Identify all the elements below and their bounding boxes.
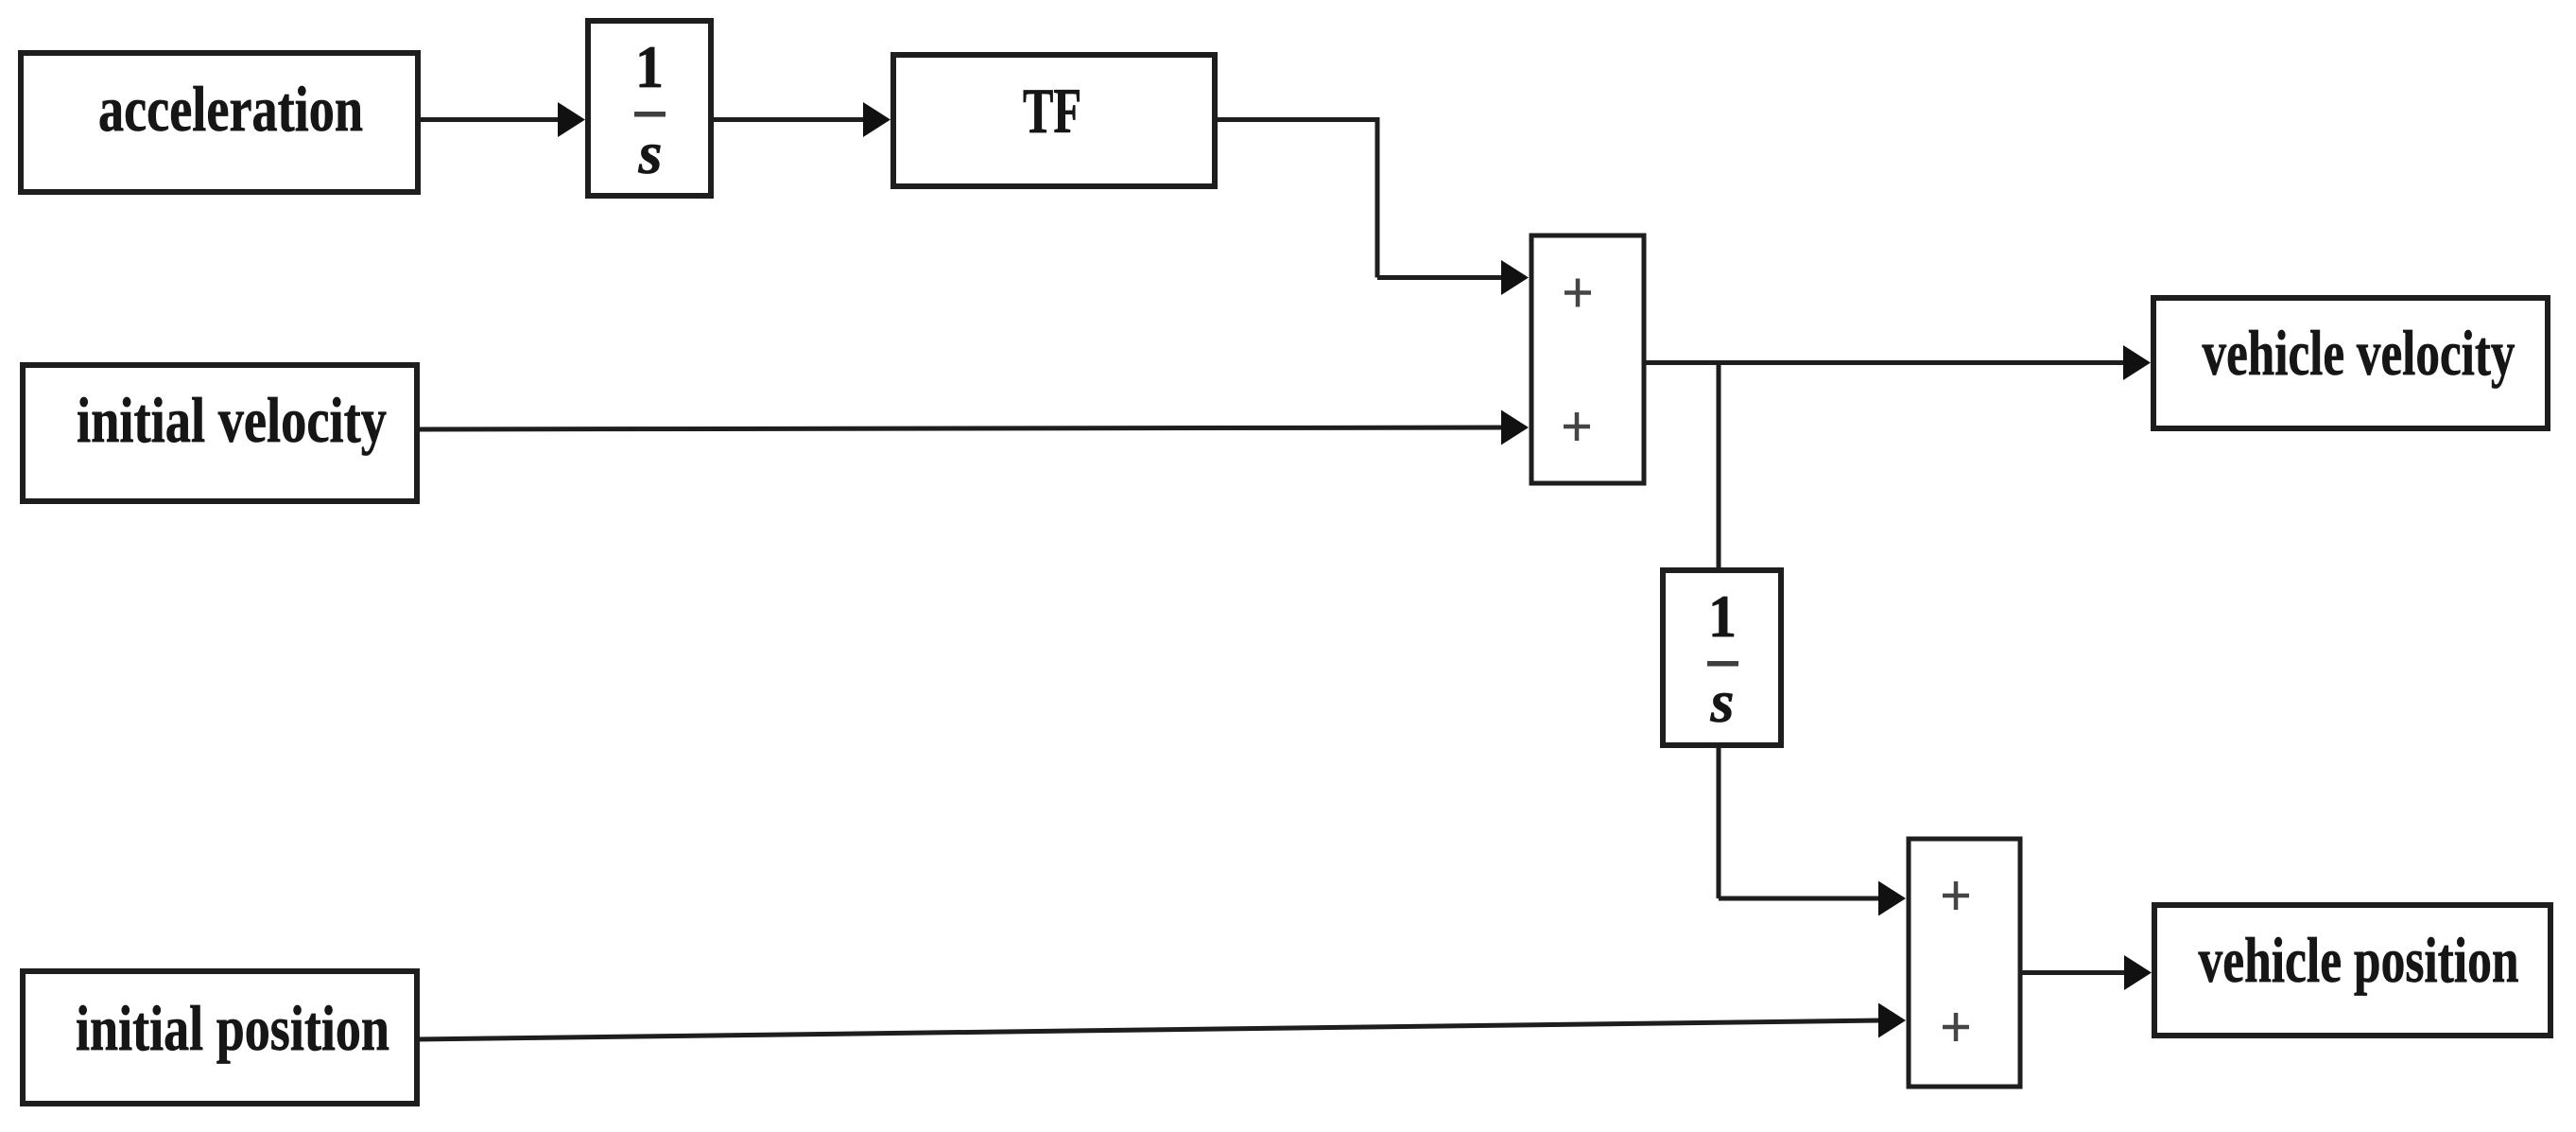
svg-text:1: 1 [635, 33, 664, 100]
svg-text:s: s [1709, 668, 1734, 735]
svg-text:vehicle position: vehicle position [2199, 924, 2519, 996]
svg-text:initial velocity: initial velocity [77, 384, 387, 456]
svg-text:vehicle velocity: vehicle velocity [2203, 317, 2515, 389]
svg-text:acceleration: acceleration [98, 73, 363, 145]
svg-text:1: 1 [1708, 583, 1737, 650]
svg-text:TF: TF [1023, 75, 1081, 147]
svg-text:initial position: initial position [76, 992, 389, 1064]
svg-text:s: s [637, 119, 662, 186]
